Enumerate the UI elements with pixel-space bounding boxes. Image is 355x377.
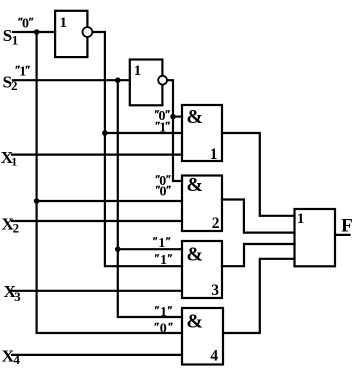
svg-text:0: 0 <box>160 322 167 337</box>
svg-text:″: ″ <box>165 120 171 132</box>
svg-text:4: 4 <box>210 347 218 364</box>
svg-text:3: 3 <box>211 282 219 299</box>
svg-text:1: 1 <box>60 15 68 31</box>
svg-text:&: & <box>186 244 203 266</box>
svg-text:1: 1 <box>160 253 167 268</box>
svg-text:1: 1 <box>158 236 165 251</box>
svg-text:1: 1 <box>134 63 142 79</box>
svg-text:1: 1 <box>210 146 218 163</box>
svg-text:&: & <box>186 311 203 333</box>
svg-text:2: 2 <box>13 221 20 236</box>
svg-text:″: ″ <box>165 236 171 248</box>
svg-text:F: F <box>341 216 353 237</box>
svg-text:″: ″ <box>166 184 172 196</box>
svg-text:&: & <box>186 106 203 128</box>
svg-text:2: 2 <box>212 215 220 232</box>
svg-text:1: 1 <box>297 211 305 227</box>
svg-text:2: 2 <box>11 78 18 93</box>
svg-text:″: ″ <box>165 108 171 120</box>
svg-text:3: 3 <box>14 289 21 304</box>
svg-text:1: 1 <box>11 155 17 169</box>
svg-text:″: ″ <box>167 252 173 264</box>
svg-text:″: ″ <box>168 321 174 333</box>
svg-text:″: ″ <box>25 64 31 76</box>
svg-text:″: ″ <box>28 16 34 28</box>
svg-text:1: 1 <box>160 305 167 320</box>
svg-text:1: 1 <box>12 33 18 48</box>
svg-text:&: & <box>186 174 203 196</box>
svg-text:4: 4 <box>13 352 20 367</box>
svg-text:″: ″ <box>167 305 173 317</box>
